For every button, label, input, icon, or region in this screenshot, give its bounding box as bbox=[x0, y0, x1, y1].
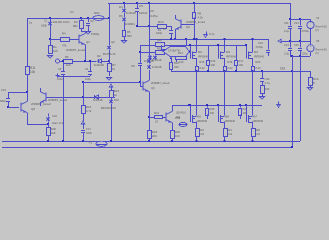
svg-text:R18: R18 bbox=[228, 60, 233, 64]
svg-text:R14: R14 bbox=[178, 51, 183, 55]
svg-text:C10: C10 bbox=[258, 41, 263, 45]
svg-text:0.25µ: 0.25µ bbox=[150, 14, 158, 18]
svg-text:100n: 100n bbox=[63, 20, 70, 24]
svg-text:R6: R6 bbox=[65, 55, 69, 59]
svg-text:1k6: 1k6 bbox=[66, 63, 71, 67]
svg-text:Q6: Q6 bbox=[31, 107, 35, 111]
svg-text:0.22: 0.22 bbox=[256, 66, 262, 70]
svg-text:R19: R19 bbox=[199, 128, 204, 132]
svg-text:4.2k: 4.2k bbox=[198, 16, 204, 20]
svg-text:C18: C18 bbox=[52, 114, 57, 118]
svg-text:Q8 IRLU: Q8 IRLU bbox=[176, 111, 186, 115]
svg-text:0.22: 0.22 bbox=[227, 132, 233, 136]
svg-text:C17: C17 bbox=[86, 127, 91, 131]
svg-text:Q2: Q2 bbox=[111, 40, 115, 44]
svg-text:0.22: 0.22 bbox=[199, 132, 205, 136]
svg-text:BCX56-16: BCX56-16 bbox=[103, 52, 116, 56]
svg-text:560n: 560n bbox=[0, 99, 6, 103]
svg-text:R27: R27 bbox=[243, 107, 248, 111]
svg-text:1N4148: 1N4148 bbox=[152, 65, 162, 69]
svg-text:D5: D5 bbox=[119, 14, 123, 18]
svg-text:100: 100 bbox=[175, 134, 180, 138]
svg-text:220: 220 bbox=[152, 134, 157, 138]
svg-text:1N4148: 1N4148 bbox=[53, 20, 63, 24]
svg-text:1a: 1a bbox=[29, 21, 32, 25]
svg-text:IRF9640: IRF9640 bbox=[225, 119, 236, 123]
svg-text:100: 100 bbox=[210, 111, 215, 115]
svg-text:2.2µ: 2.2µ bbox=[284, 29, 290, 33]
svg-text:0.22: 0.22 bbox=[255, 132, 261, 136]
svg-text:Q1: Q1 bbox=[86, 40, 90, 44]
svg-text:D2: D2 bbox=[97, 54, 101, 58]
svg-text:C15: C15 bbox=[1, 88, 6, 92]
svg-text:2N5087_tuned: 2N5087_tuned bbox=[66, 48, 85, 52]
svg-text:100p: 100p bbox=[57, 77, 63, 81]
svg-text:10k: 10k bbox=[30, 70, 36, 74]
svg-text:2N5087_tuned: 2N5087_tuned bbox=[31, 102, 51, 106]
svg-text:R16: R16 bbox=[211, 59, 216, 63]
svg-text:C11: C11 bbox=[284, 21, 289, 25]
svg-text:100nF: 100nF bbox=[139, 11, 148, 15]
svg-text:D10: D10 bbox=[114, 98, 119, 102]
svg-text:V3: V3 bbox=[316, 16, 320, 20]
svg-text:100: 100 bbox=[179, 60, 184, 64]
svg-text:1N4148: 1N4148 bbox=[93, 98, 103, 102]
svg-text:4700µ: 4700µ bbox=[302, 29, 310, 33]
svg-text:47k: 47k bbox=[62, 44, 67, 48]
svg-text:R24: R24 bbox=[227, 128, 232, 132]
svg-text:IRF9640: IRF9640 bbox=[197, 119, 208, 123]
svg-text:100p: 100p bbox=[85, 77, 91, 81]
svg-text:R23: R23 bbox=[174, 61, 179, 65]
svg-text:V5: V5 bbox=[316, 39, 320, 43]
svg-text:IRF9540: IRF9540 bbox=[254, 55, 265, 59]
svg-text:R30: R30 bbox=[51, 127, 56, 131]
svg-text:R15: R15 bbox=[200, 60, 205, 64]
svg-text:1k8: 1k8 bbox=[51, 131, 56, 135]
svg-text:330: 330 bbox=[174, 65, 179, 69]
svg-text:C12: C12 bbox=[265, 77, 270, 81]
svg-text:M6: M6 bbox=[225, 115, 229, 119]
svg-text:M5: M5 bbox=[197, 115, 201, 119]
svg-text:C14: C14 bbox=[284, 43, 289, 47]
svg-text:D4: D4 bbox=[119, 5, 123, 9]
svg-text:RN2: RN2 bbox=[175, 116, 181, 120]
svg-text:R17: R17 bbox=[239, 59, 244, 63]
svg-text:4.7µ: 4.7µ bbox=[265, 81, 271, 85]
svg-text:4700µ: 4700µ bbox=[256, 45, 264, 49]
svg-text:R22: R22 bbox=[265, 87, 270, 91]
svg-text:Q3: Q3 bbox=[186, 25, 190, 29]
svg-text:C6: C6 bbox=[150, 9, 154, 13]
svg-text:R10: R10 bbox=[158, 20, 164, 24]
svg-text:1N4148: 1N4148 bbox=[94, 63, 104, 67]
svg-text:Gain 1=4: Gain 1=4 bbox=[52, 121, 63, 125]
svg-text:22: 22 bbox=[155, 120, 158, 124]
svg-text:0.22: 0.22 bbox=[228, 66, 234, 70]
svg-text:R29: R29 bbox=[175, 130, 180, 134]
svg-text:IRF9640: IRF9640 bbox=[253, 119, 264, 123]
svg-text:R28: R28 bbox=[255, 128, 260, 132]
svg-text:1N4001: 1N4001 bbox=[125, 22, 135, 26]
svg-text:R20: R20 bbox=[256, 60, 261, 64]
svg-text:100n: 100n bbox=[86, 131, 92, 135]
svg-text:IRF9540: IRF9540 bbox=[226, 55, 237, 59]
svg-text:C1: C1 bbox=[70, 10, 74, 14]
svg-text:4.7k: 4.7k bbox=[86, 109, 92, 113]
svg-text:2.2µ: 2.2µ bbox=[284, 52, 290, 56]
svg-text:R31: R31 bbox=[154, 111, 159, 115]
svg-text:220µ: 220µ bbox=[302, 52, 308, 56]
svg-text:Q4: Q4 bbox=[151, 86, 155, 90]
svg-text:1k5: 1k5 bbox=[53, 49, 58, 53]
svg-text:0.7µ: 0.7µ bbox=[209, 32, 215, 36]
svg-text:RN1: RN1 bbox=[94, 11, 100, 15]
svg-text:C8: C8 bbox=[131, 64, 135, 68]
svg-text:0.22: 0.22 bbox=[200, 66, 206, 70]
svg-text:180k: 180k bbox=[41, 24, 47, 28]
svg-text:100p: 100p bbox=[156, 31, 163, 35]
svg-text:[V]: [V] bbox=[316, 52, 319, 55]
svg-text:M2: M2 bbox=[198, 50, 202, 54]
svg-text:C13: C13 bbox=[294, 21, 299, 25]
svg-text:R10: R10 bbox=[157, 38, 162, 42]
svg-text:C3: C3 bbox=[58, 67, 62, 71]
svg-text:M4: M4 bbox=[254, 50, 258, 54]
svg-text:68k: 68k bbox=[73, 24, 78, 28]
svg-text:C5: C5 bbox=[139, 4, 143, 8]
svg-text:C4: C4 bbox=[85, 67, 89, 71]
svg-text:1N4148: 1N4148 bbox=[152, 58, 162, 62]
svg-text:100: 100 bbox=[239, 63, 244, 67]
svg-text:2N5087_tuned: 2N5087_tuned bbox=[151, 81, 170, 85]
svg-text:Out: Out bbox=[280, 67, 285, 71]
svg-text:BZX84C5V6: BZX84C5V6 bbox=[101, 106, 116, 110]
svg-text:M3: M3 bbox=[226, 50, 230, 54]
svg-text:[V]: [V] bbox=[316, 29, 319, 32]
svg-text:100: 100 bbox=[211, 63, 216, 67]
svg-text:C15: C15 bbox=[294, 43, 299, 47]
svg-text:2N5087_tuned: 2N5087_tuned bbox=[186, 20, 205, 24]
svg-text:1000µ: 1000µ bbox=[91, 32, 100, 36]
svg-text:680: 680 bbox=[127, 34, 132, 38]
svg-text:R26: R26 bbox=[210, 107, 215, 111]
svg-text:M7: M7 bbox=[253, 115, 257, 119]
svg-text:IRF9540: IRF9540 bbox=[198, 55, 209, 59]
svg-text:C1: C1 bbox=[44, 19, 48, 23]
svg-text:C7: C7 bbox=[163, 27, 167, 31]
svg-text:1N4148: 1N4148 bbox=[126, 11, 136, 15]
svg-text:2N5087_tuned: 2N5087_tuned bbox=[48, 98, 67, 102]
svg-text:R4: R4 bbox=[62, 32, 66, 36]
